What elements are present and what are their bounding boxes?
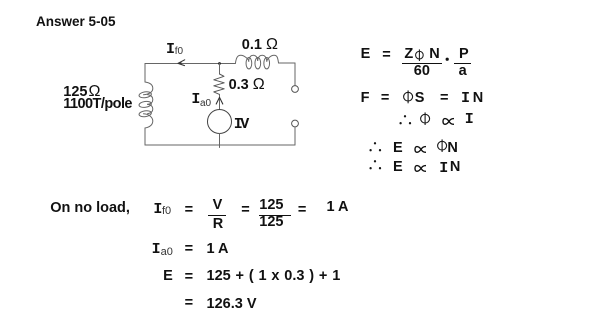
wire: right vertical to top terminal (294, 63, 296, 86)
equation therefore E propto PhiN (368, 141, 382, 153)
wire: armature circle to bottom wire (with overshoot) (219, 134, 221, 148)
resistor 0.3 ohm (zigzag) (214, 74, 224, 94)
label I_a0 (191, 92, 200, 107)
field coil 125 ohm (vertical inductor, loops left, humps right) (139, 82, 153, 128)
wire: top horizontal right segment after coil (279, 62, 296, 64)
solution row 1: On no load, I_f0 = V/R = 125/125 = 1 A (50, 201, 130, 216)
wire: lower terminal to bottom corner (294, 127, 296, 145)
equation E = ZPhiN/60 . P/a (361, 47, 371, 62)
wire: resistor to armature circle (219, 94, 221, 109)
wire: bottom horizontal (145, 144, 295, 146)
series coil 0.1 ohm (horizontal inductor) (236, 55, 279, 69)
label 0.1 ohm (242, 38, 278, 53)
label 1V armature emf (234, 117, 247, 132)
label 1100T/pole (63, 97, 132, 112)
label 125 ohm field resistance (63, 85, 100, 100)
equation F = PhiS = IN (361, 91, 370, 106)
wire: left vertical top (144, 64, 146, 83)
label 0.3 ohm (229, 78, 265, 93)
terminal (lower output circle) (292, 120, 299, 127)
node junction dot (top of armature branch) (218, 62, 221, 65)
arrow I_a0 (pointing up) (216, 97, 223, 104)
armature branch wire (junction to resistor) (219, 64, 221, 75)
arrow I_f0 (pointing left on top wire) (178, 60, 185, 66)
solution row 4: = 126.3 V (185, 296, 193, 311)
equation therefore E propto IN (368, 159, 382, 171)
solution row 3: E = 125 + ( 1 x 0.3 ) + 1 (163, 269, 173, 284)
armature generator circle 1V (208, 110, 232, 134)
wire: left vertical bottom (144, 128, 146, 145)
label I_f0 (166, 42, 175, 57)
title Answer 5-05 (36, 15, 116, 30)
equation therefore Phi propto I (398, 114, 412, 126)
wire: top horizontal left segment (145, 63, 236, 65)
solution row 2: I_a0 = 1 A (152, 242, 161, 257)
terminal (upper output circle) (292, 86, 299, 93)
